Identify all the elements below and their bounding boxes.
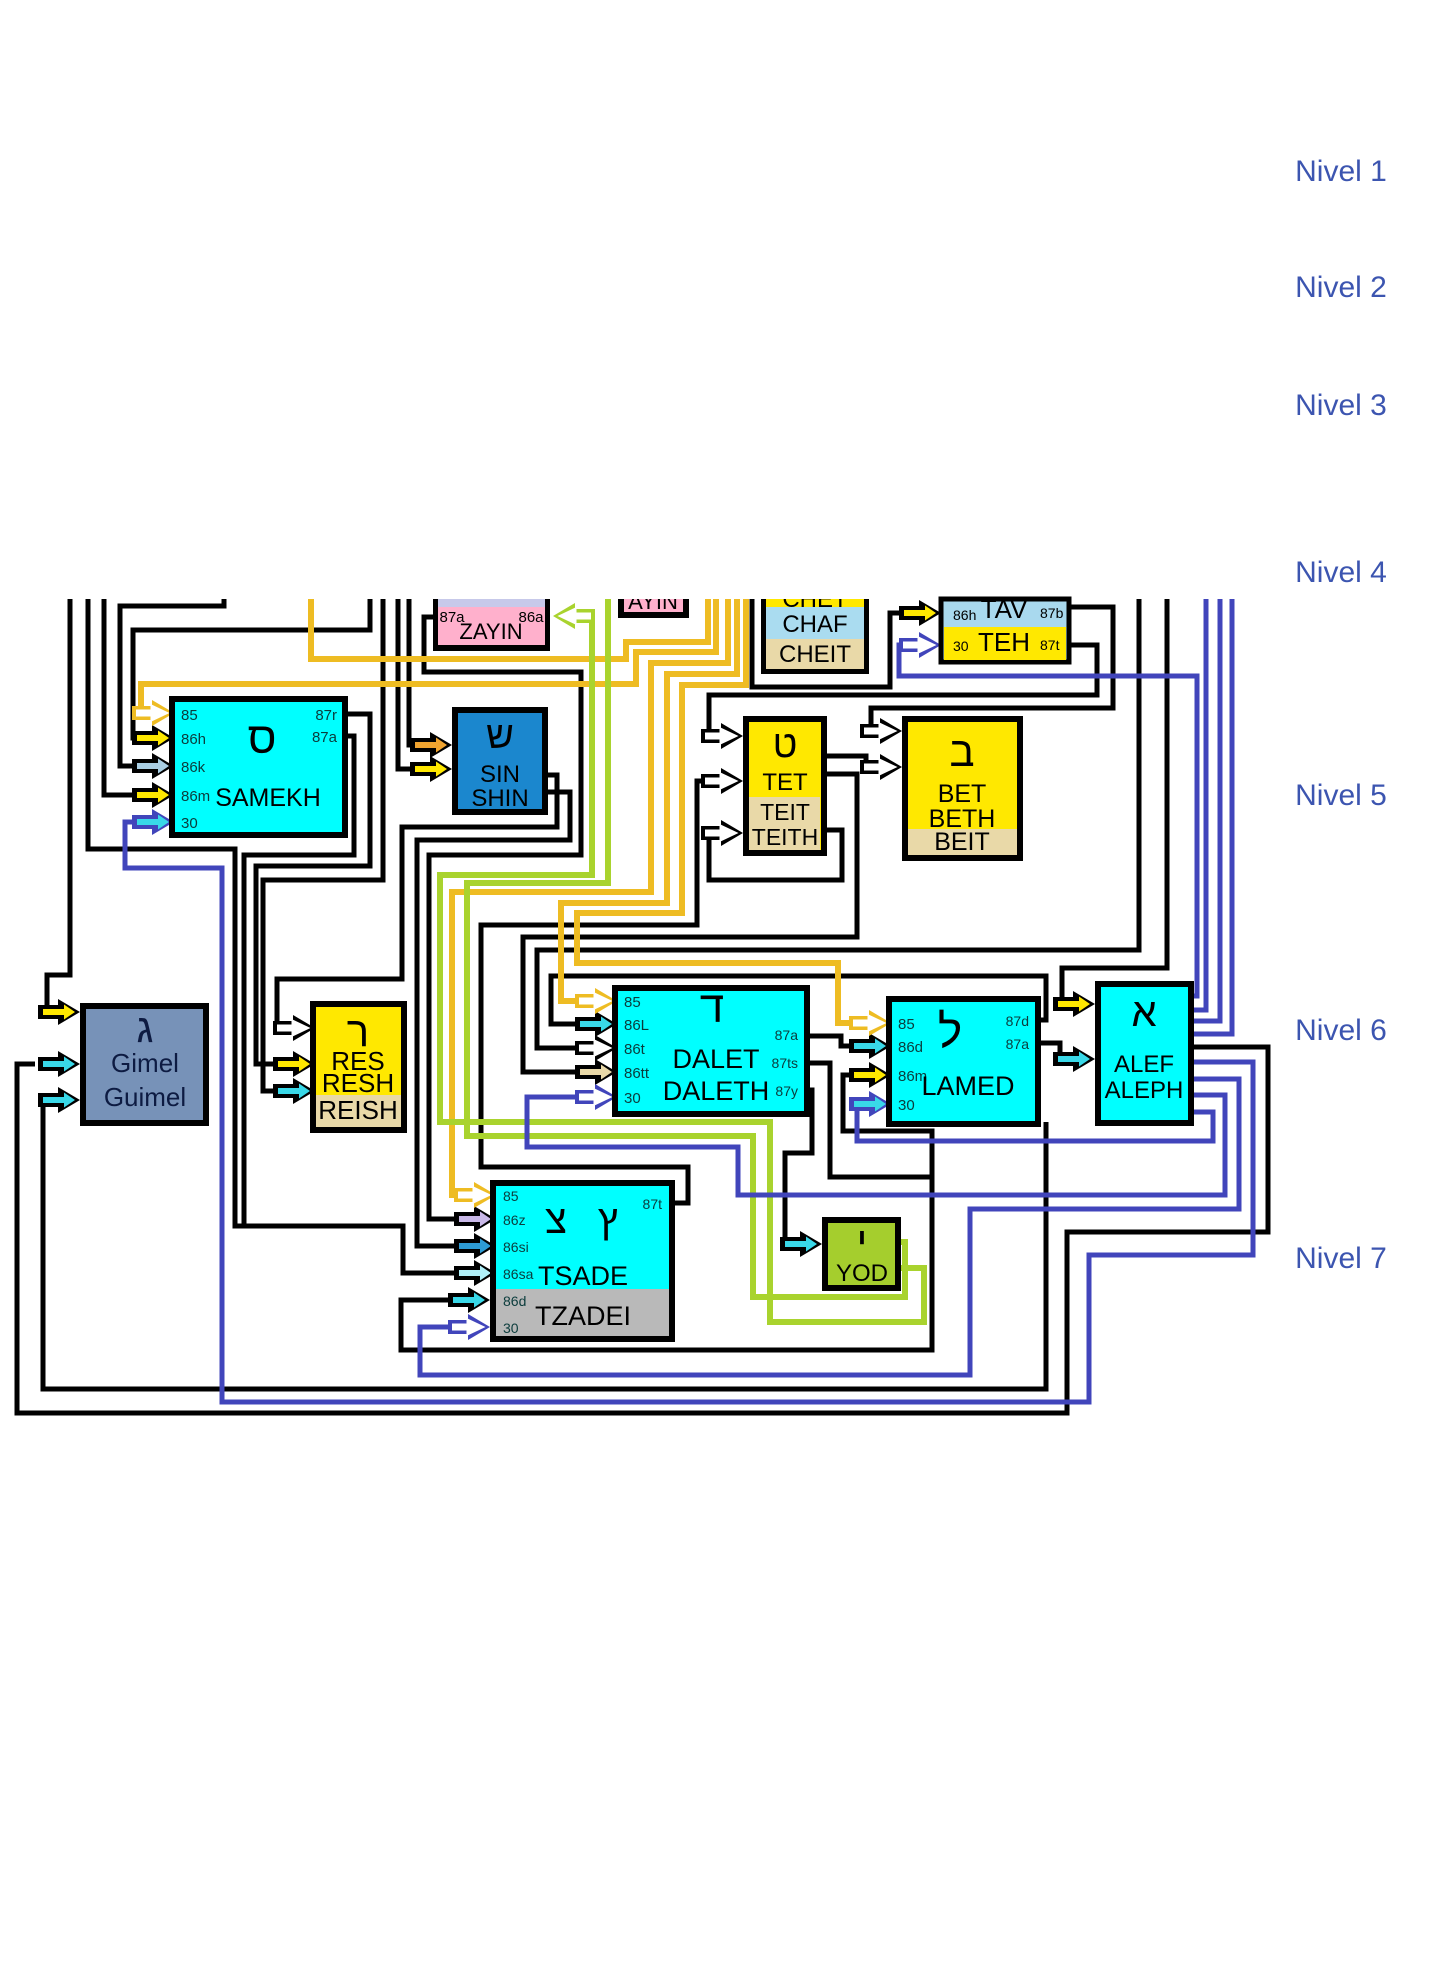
arrow into YOD input cyan (780, 1231, 822, 1257)
wire SIN out1 to RESH input1 (277, 775, 557, 1028)
arrow into SAMEKH 86h yellow (132, 725, 174, 751)
box LAMED (889, 999, 1038, 1124)
svg-text:ש: ש (486, 715, 514, 757)
box YOD (825, 1220, 898, 1288)
arrow into RESH input2 yellow (273, 1051, 315, 1077)
arrow into RESH input3 cyan (273, 1078, 315, 1104)
green wire YOD out1 to crop-top (467, 599, 905, 1297)
svg-text:LAMED: LAMED (921, 1071, 1014, 1101)
arrow into ZAYIN 86a green (553, 603, 595, 629)
svg-text:87t: 87t (1040, 637, 1060, 653)
svg-text:TSADE: TSADE (538, 1261, 628, 1291)
arrow into LAMED 86m yellow (849, 1062, 891, 1088)
svg-text:SAMEKH: SAMEKH (215, 784, 321, 812)
svg-text:ס: ס (248, 714, 277, 763)
wire DALET 87ts branch junction (805, 1063, 932, 1177)
svg-text:TAV: TAV (981, 594, 1028, 624)
svg-text:87a: 87a (775, 1027, 799, 1043)
svg-text:86d: 86d (898, 1039, 923, 1056)
box RES RESH REISH (313, 1004, 404, 1130)
wire SAMEKH 87a to TSADE 86sa (244, 736, 455, 1273)
wire TAV 87b branch to BET input1 (871, 609, 1113, 731)
svg-text:Nivel 7: Nivel 7 (1295, 1242, 1387, 1275)
arrow into DALET 85 gold (575, 988, 617, 1014)
svg-text:ל: ל (938, 1005, 962, 1057)
svg-text:ד: ד (700, 983, 724, 1032)
svg-text:ב: ב (949, 728, 974, 775)
arrow into DALET 86L cyan (575, 1011, 617, 1037)
svg-text:DALET: DALET (672, 1044, 759, 1074)
box SIN SHIN (455, 710, 545, 812)
arrow into TSADE 86sa light cyan (454, 1260, 496, 1286)
box TET TEIT TEITH (746, 719, 824, 853)
svg-text:87d: 87d (1006, 1013, 1029, 1029)
svg-text:RESH: RESH (322, 1068, 394, 1098)
svg-text:85: 85 (503, 1188, 519, 1204)
svg-text:REISH: REISH (318, 1095, 397, 1125)
svg-text:30: 30 (624, 1090, 641, 1107)
wire crop-top to SAMEKH 86h (133, 599, 370, 738)
arrow into TET input2 white (701, 768, 743, 794)
wire TET out to BET input2 (826, 756, 870, 767)
arrow into ALEF input2 cyan (1053, 1046, 1095, 1072)
svg-text:ALEPH: ALEPH (1105, 1077, 1184, 1104)
wire branch up to LAMED 86m (843, 1075, 932, 1180)
arrow into TSADE 30 blue (448, 1314, 490, 1340)
wire TAV 87b down (1069, 607, 1113, 660)
svg-text:30: 30 (898, 1097, 915, 1114)
wire crop-top x88 bottom-left loop (88, 599, 330, 1226)
svg-text:TEH: TEH (978, 627, 1030, 657)
arrow into TSADE 86d cyan (448, 1287, 490, 1313)
svg-text:86tt: 86tt (624, 1065, 650, 1082)
gold wire to DALET 85 (561, 599, 737, 1001)
blue wire ALEF to SAMEKH 30 (125, 822, 1253, 1402)
box ZAYIN (433, 599, 550, 650)
svg-text:ZAYIN: ZAYIN (459, 619, 522, 644)
arrow into TEH 30 blue (899, 632, 941, 658)
svg-text:85: 85 (181, 707, 198, 724)
wire LAMED 87d to DALET 86L (551, 976, 1046, 1024)
blue wire ALEF out up1 (1189, 599, 1206, 1010)
svg-text:87r: 87r (315, 707, 337, 724)
blue wire ALEF to LAMED 30 (857, 1104, 1213, 1141)
svg-text:86z: 86z (503, 1212, 526, 1228)
wire crop-top to SIN input1 (409, 599, 416, 745)
wire crop-top to RESH input3 (263, 599, 383, 1091)
arrow into BET input2 white (860, 754, 902, 780)
svg-text:Nivel 4: Nivel 4 (1295, 556, 1387, 589)
svg-text:30: 30 (181, 815, 198, 832)
arrow into Gimel port2 cyan (38, 1051, 80, 1077)
wire SAMEKH 87r to RESH input2 (256, 714, 370, 1064)
blue wire ALEF out up2 (1189, 599, 1220, 1021)
svg-text:87y: 87y (775, 1083, 798, 1099)
box AYIN (cropped) (618, 599, 689, 617)
arrow into TSADE 86si steel blue (454, 1233, 496, 1259)
svg-text:86t: 86t (624, 1041, 646, 1058)
svg-text:87ts: 87ts (772, 1055, 798, 1071)
arrow into LAMED 85 gold (849, 1010, 891, 1036)
wire TSADE 87t to TET input2 (481, 781, 708, 1203)
arrow into SAMEKH 85 gold (132, 700, 174, 726)
blue wire ALEF to DALET 30 (527, 1095, 1225, 1195)
wire LAMED 87a to ALEF input2 (1036, 1043, 1062, 1059)
wire TET self-loop to TET input3 (709, 830, 842, 880)
svg-text:Nivel 5: Nivel 5 (1295, 779, 1387, 812)
box CHET CHAF CHEIT (766, 599, 864, 669)
svg-text:86m: 86m (181, 788, 210, 805)
gold wire crop loop (311, 599, 708, 659)
svg-text:BET: BET (938, 780, 987, 808)
svg-text:Gimel: Gimel (111, 1048, 179, 1078)
arrow into SIN SHIN input2 yellow (410, 756, 452, 782)
gold wire to LAMED 85 (577, 599, 856, 1023)
arrow into LAMED 86d cyan (849, 1033, 891, 1059)
box SAMEKH (172, 699, 345, 835)
arrow into SAMEKH 86k light blue (132, 753, 174, 779)
svg-text:צ: צ (545, 1198, 567, 1242)
wire CHET col to TAV 86h (752, 599, 900, 687)
green wire YOD out2 to ZAYIN (440, 618, 924, 1322)
svg-text:30: 30 (953, 638, 969, 654)
box DALET DALETH (615, 988, 807, 1114)
svg-text:TEIT: TEIT (760, 799, 810, 825)
svg-text:87t: 87t (643, 1196, 663, 1212)
wire DALET 87y to YOD input (785, 1090, 812, 1244)
arrow into LAMED 30 blue (849, 1091, 891, 1117)
svg-text:86h: 86h (953, 607, 976, 623)
svg-text:YOD: YOD (836, 1260, 888, 1287)
svg-text:85: 85 (898, 1016, 915, 1033)
svg-text:SIN: SIN (480, 761, 520, 788)
wire ALEF out black to Gimel input2 (17, 1047, 1268, 1413)
svg-text:86L: 86L (624, 1017, 649, 1034)
svg-text:86h: 86h (181, 731, 206, 748)
blue wire ALEF to TEH 30 (899, 645, 1197, 996)
svg-text:Nivel 3: Nivel 3 (1295, 389, 1387, 422)
arrow into Gimel port3 cyan (38, 1087, 80, 1113)
blue wire ALEF to TSADE 30 (420, 1079, 1239, 1375)
wire crop-top to Gimel input 1 (47, 599, 70, 1012)
box BET BETH BEIT (905, 719, 1020, 858)
arrow into RESH input1 white (273, 1015, 315, 1041)
svg-text:Nivel 6: Nivel 6 (1295, 1014, 1387, 1047)
wire crop-top to SAMEKH 86m (104, 599, 132, 795)
svg-text:87b: 87b (1040, 605, 1064, 621)
wire branch down to TSADE 86d (401, 1174, 932, 1350)
wire crop-top to DALET 86t (537, 599, 1139, 1048)
gold wire to TSADE 85 (452, 599, 728, 1195)
svg-text:CHAF: CHAF (782, 611, 847, 638)
svg-text:ץ: ץ (598, 1198, 618, 1242)
svg-text:BEIT: BEIT (934, 828, 990, 856)
svg-text:י: י (857, 1218, 868, 1265)
svg-text:85: 85 (624, 994, 641, 1011)
blue wire ALEF out up3 (1189, 599, 1232, 1034)
svg-text:TEITH: TEITH (752, 824, 818, 850)
svg-text:86k: 86k (181, 759, 206, 776)
wire crop-top to SIN input2 (398, 599, 418, 769)
svg-text:DALETH: DALETH (663, 1076, 770, 1106)
box ALEF ALEPH (1098, 984, 1191, 1123)
gold wire crop-top to SAMEKH 85 (141, 599, 716, 713)
svg-text:86sa: 86sa (503, 1266, 534, 1282)
arrow into TET input3 white (701, 820, 743, 846)
svg-text:87a: 87a (312, 729, 338, 746)
wire DALET 87a to LAMED 86d (805, 1036, 856, 1046)
svg-text:30: 30 (503, 1320, 519, 1336)
wire SIN out2 to TSADE 86si (417, 792, 570, 1246)
arrow into ALEF input1 yellow (1053, 991, 1095, 1017)
arrow into DALET 30 blue (575, 1084, 617, 1110)
svg-text:86si: 86si (503, 1239, 529, 1255)
arrow into TSADE 85 gold (454, 1182, 496, 1208)
svg-text:א: א (1131, 991, 1156, 1035)
svg-text:Nivel 1: Nivel 1 (1295, 155, 1387, 188)
arrow into SIN SHIN input1 orange (410, 732, 452, 758)
svg-text:TET: TET (762, 769, 808, 796)
arrow into TET input1 white (701, 723, 743, 749)
svg-text:CHEIT: CHEIT (779, 641, 851, 668)
arrow into Gimel port1 yellow (38, 999, 80, 1025)
wire TAV 87t to TET input1 (709, 645, 1097, 736)
wire ZAYIN out to TSADE 86z (424, 617, 581, 1219)
box TSADE TZADEI (493, 1183, 672, 1339)
svg-text:Nivel 2: Nivel 2 (1295, 271, 1387, 304)
arrow into SAMEKH 86m yellow (132, 782, 174, 808)
arrow into TSADE 86z lavender (454, 1206, 496, 1232)
svg-text:Guimel: Guimel (104, 1082, 186, 1112)
wire LAMED bottom to Gimel input3 (43, 1100, 1046, 1389)
svg-text:ג: ג (137, 1007, 154, 1051)
svg-text:TZADEI: TZADEI (535, 1301, 631, 1331)
arrow into DALET 86t white (575, 1035, 617, 1061)
svg-text:ט: ט (773, 724, 798, 766)
box Gimel Guimel (83, 1006, 206, 1123)
svg-text:SHIN: SHIN (471, 785, 528, 812)
box TAV TEH (941, 599, 1069, 662)
arrow into TAV 86h yellow (899, 600, 941, 626)
arrow into BET input1 white (860, 718, 902, 744)
svg-text:87a: 87a (1006, 1036, 1030, 1052)
svg-text:86d: 86d (503, 1293, 526, 1309)
arrow into DALET 86tt tan (575, 1059, 617, 1085)
svg-text:ALEF: ALEF (1114, 1051, 1174, 1078)
wire crop-top to ALEF input1 (1062, 599, 1167, 1004)
wire TET out2 to DALET 86tt (523, 774, 857, 1072)
arrow into SAMEKH 30 blue (132, 809, 174, 835)
wire crop-top to SAMEKH 86k (120, 599, 224, 766)
